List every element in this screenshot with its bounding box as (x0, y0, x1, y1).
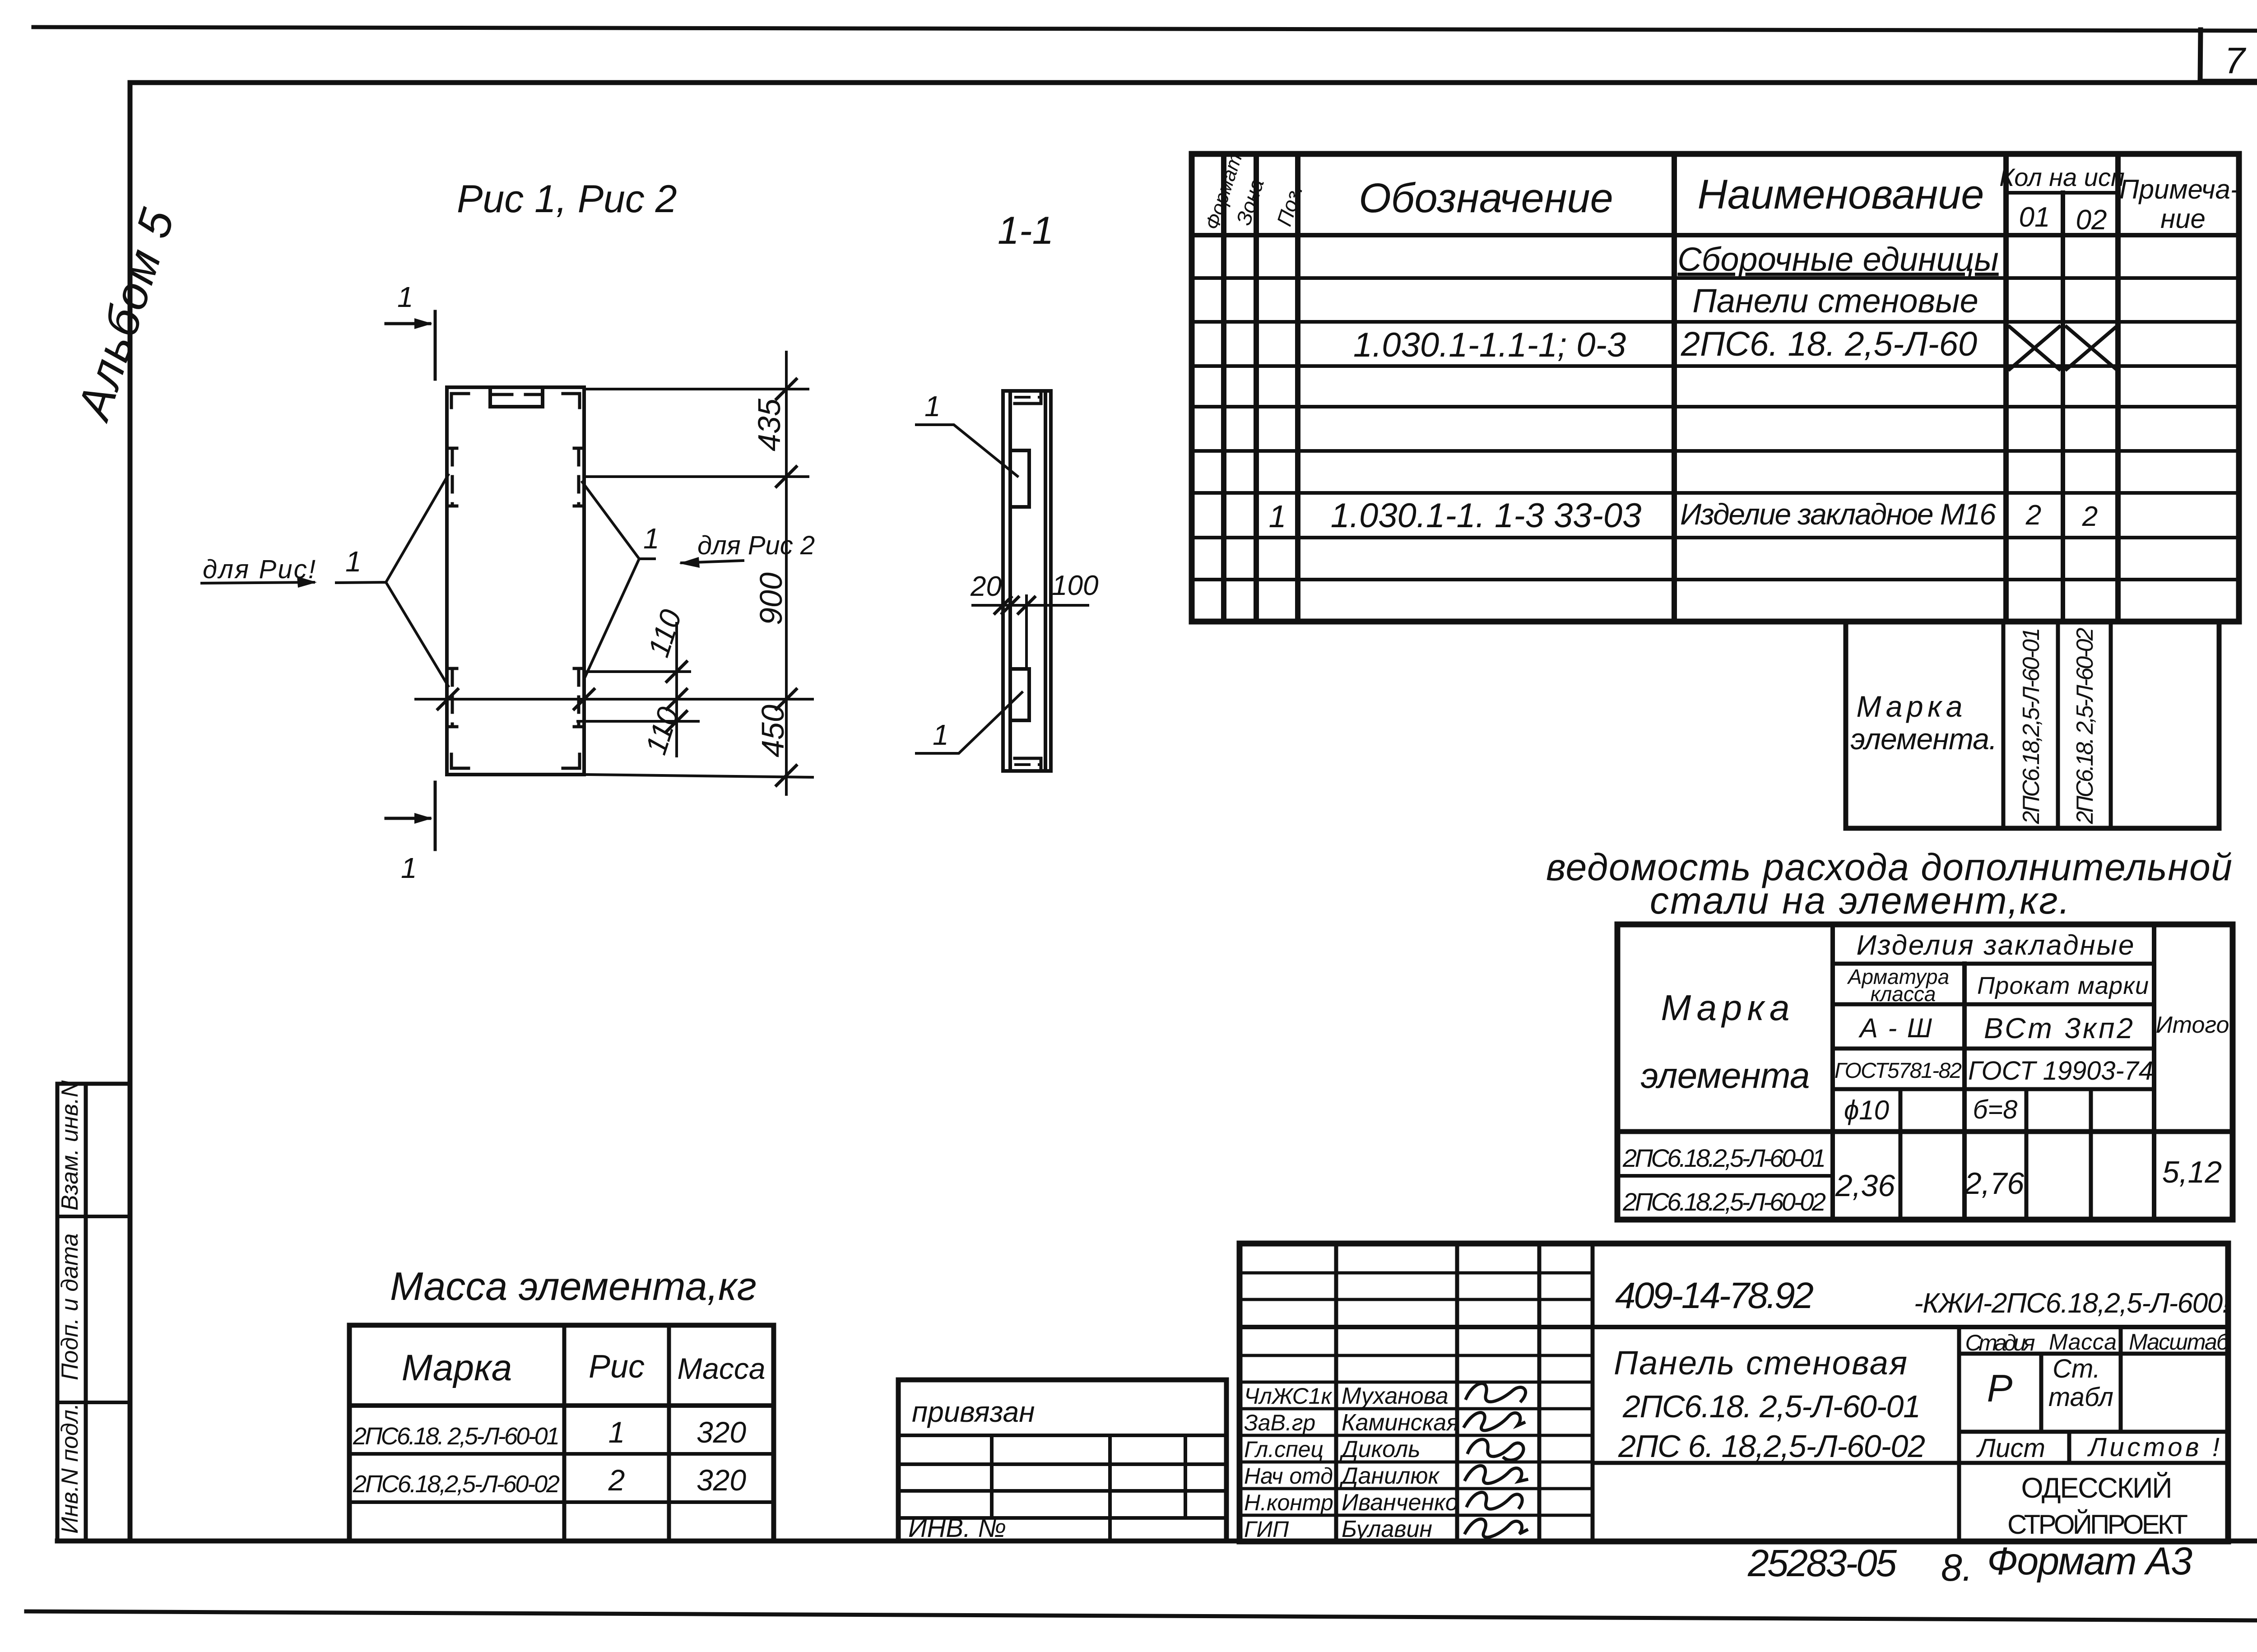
svg-text:2ПС6.18. 2,5-Л-60-02: 2ПС6.18. 2,5-Л-60-02 (2072, 627, 2098, 824)
svg-text:Р: Р (1987, 1367, 2013, 1410)
svg-text:Каминская: Каминская (1342, 1410, 1459, 1436)
svg-text:7: 7 (2224, 40, 2247, 81)
svg-text:2ПС6.18. 2,5-Л-60-01: 2ПС6.18. 2,5-Л-60-01 (1622, 1389, 1921, 1424)
svg-text:для Рис 2: для Рис 2 (697, 531, 815, 560)
svg-text:5,12: 5,12 (2162, 1155, 2222, 1189)
svg-text:25283-05: 25283-05 (1747, 1542, 1897, 1584)
svg-text:2ПС6. 18. 2,5-Л-60: 2ПС6. 18. 2,5-Л-60 (1681, 325, 1977, 363)
X mark 02 (2067, 327, 2116, 369)
specification table outer (1192, 154, 2239, 622)
svg-text:Кол на исп: Кол на исп (1999, 163, 2125, 191)
svg-text:2: 2 (2082, 501, 2098, 532)
svg-text:Наименование: Наименование (1698, 172, 1984, 218)
dim ticks (776, 379, 796, 399)
spec table header bottom (1192, 233, 2239, 237)
svg-text:Инв.N подл.: Инв.N подл. (57, 1403, 83, 1534)
svg-text:Муханова: Муханова (1342, 1383, 1449, 1409)
section cut mark top (386, 311, 435, 379)
svg-text:Формат А3: Формат А3 (1987, 1540, 2192, 1583)
svg-text:Иванченко: Иванченко (1342, 1490, 1458, 1516)
svg-text:Данилюк: Данилюк (1339, 1463, 1440, 1489)
svg-text:класса: класса (1871, 982, 1936, 1006)
svg-text:02: 02 (2076, 204, 2107, 236)
tick slashes at panel edge crossings (438, 689, 594, 709)
svg-text:2ПС6.18.2,5-Л-60-01: 2ПС6.18.2,5-Л-60-01 (1622, 1144, 1826, 1172)
massa table outer (349, 1325, 774, 1541)
svg-text:409-14-78.92: 409-14-78.92 (1615, 1275, 1814, 1316)
left leader lines (336, 475, 448, 686)
svg-text:привязан: привязан (912, 1396, 1035, 1428)
svg-text:Марка: Марка (402, 1347, 512, 1388)
dim extension lines (416, 389, 813, 777)
top edge line of sheet (33, 27, 2257, 31)
svg-text:1.030.1-1. 1-3 33-03: 1.030.1-1. 1-3 33-03 (1331, 497, 1642, 535)
inner dim 110 upper (587, 623, 690, 756)
svg-text:Подп. и дата: Подп. и дата (57, 1233, 83, 1380)
svg-text:Диколь: Диколь (1339, 1436, 1421, 1462)
svg-text:2ПС6.18. 2,5-Л-60-01: 2ПС6.18. 2,5-Л-60-01 (353, 1423, 560, 1450)
svg-text:450: 450 (755, 705, 790, 757)
svg-text:Взам. инв.N: Взам. инв.N (57, 1080, 83, 1211)
strip divider lines (57, 1216, 130, 1402)
steel table outer (1617, 924, 2233, 1220)
section leader lower 1 (916, 692, 1022, 753)
svg-text:элемента: элемента (1641, 1055, 1810, 1095)
svg-text:1: 1 (924, 390, 941, 422)
svg-text:1: 1 (397, 281, 413, 313)
svg-text:б=8: б=8 (1973, 1095, 2018, 1124)
svg-text:8.: 8. (1941, 1546, 1973, 1589)
title block name row lines (1240, 1382, 1593, 1515)
section lower embed item (1010, 669, 1029, 720)
title block upper-left row lines (1240, 1273, 1593, 1355)
svg-text:320: 320 (697, 1415, 746, 1449)
svg-text:ГОСТ 19903-74: ГОСТ 19903-74 (1968, 1056, 2153, 1086)
svg-text:Примеча-: Примеча- (2119, 174, 2239, 204)
marka elementa box (1846, 622, 2219, 828)
svg-text:Н.контр: Н.контр (1244, 1490, 1333, 1515)
svg-text:1-1: 1-1 (998, 209, 1054, 252)
corner bracket top-left (451, 394, 469, 408)
svg-text:табл: табл (2048, 1383, 2113, 1412)
signature squiggles (1466, 1383, 1526, 1402)
svg-text:Рис: Рис (589, 1349, 645, 1385)
svg-text:100: 100 (1052, 570, 1098, 601)
steel table horizontals (1833, 964, 2154, 1089)
svg-text:ГОСТ5781-82: ГОСТ5781-82 (1834, 1059, 1962, 1083)
svg-text:Стадия: Стадия (1965, 1330, 2035, 1355)
privyazan box (898, 1380, 1226, 1541)
svg-text:Гл.спец: Гл.спец (1244, 1437, 1324, 1462)
svg-text:320: 320 (697, 1463, 746, 1497)
svg-text:2,36: 2,36 (1835, 1169, 1895, 1203)
X mark 01 (2010, 327, 2059, 369)
svg-text:Изделие закладное М16: Изделие закладное М16 (1680, 497, 1996, 531)
corner bracket top-right (563, 394, 580, 408)
section bottom notch (1015, 758, 1041, 771)
svg-text:2: 2 (2025, 500, 2041, 531)
svg-text:ние: ние (2160, 204, 2206, 234)
svg-text:01: 01 (2019, 202, 2050, 233)
corner bracket bottom-left (451, 754, 469, 768)
section cut mark bottom (386, 782, 435, 849)
corner bracket bottom-right (563, 754, 580, 768)
svg-text:2,76: 2,76 (1964, 1166, 2025, 1201)
svg-text:Обозначение: Обозначение (1359, 175, 1613, 221)
svg-text:Масса: Масса (677, 1352, 765, 1385)
section dims 20 100 (973, 596, 1088, 669)
svg-text:ЗаВ.гр: ЗаВ.гр (1244, 1410, 1315, 1435)
svg-text:ИНВ. №: ИНВ. № (908, 1513, 1006, 1543)
strong line under 409 row (1240, 1325, 2228, 1329)
svg-text:А-Ш: А-Ш (1858, 1013, 1932, 1043)
section leader upper 1 (916, 425, 1017, 476)
page number box (2200, 30, 2257, 81)
section panel walls (1003, 391, 1051, 771)
svg-text:1: 1 (401, 852, 417, 884)
svg-text:2ПС6.18.2,5-Л-60-02: 2ПС6.18.2,5-Л-60-02 (1622, 1188, 1826, 1216)
svg-text:900: 900 (753, 572, 789, 625)
svg-text:Марка: Марка (1857, 690, 1963, 723)
svg-text:элемента.: элемента. (1851, 722, 1997, 756)
svg-text:ϕ10: ϕ10 (1844, 1095, 1889, 1125)
svg-text:1: 1 (608, 1415, 625, 1449)
svg-text:1.030.1-1.1-1; 0-3: 1.030.1-1.1-1; 0-3 (1353, 326, 1626, 364)
steel table verticals (1833, 924, 2154, 1220)
title block left verticals (1336, 1244, 1593, 1541)
svg-text:435: 435 (752, 398, 787, 451)
left margin strip box (57, 1084, 130, 1541)
svg-text:20: 20 (970, 571, 1002, 602)
spec table row lines (1192, 276, 2239, 280)
svg-text:Панели стеновые: Панели стеновые (1692, 282, 1978, 320)
svg-text:1: 1 (345, 545, 362, 578)
lower embed mark right (574, 668, 583, 727)
svg-text:Изделия закладные: Изделия закладные (1857, 930, 2134, 961)
spec table header underline kol na isp (2006, 191, 2118, 195)
top lifting notch (490, 388, 543, 407)
svg-text:Прокат марки: Прокат марки (1977, 972, 2149, 999)
svg-text:Сборочные единицы: Сборочные единицы (1677, 241, 1998, 278)
svg-text:Марка: Марка (1661, 988, 1790, 1028)
sheet bottom line (26, 1611, 2257, 1620)
inner dim 110 lower (578, 720, 698, 723)
svg-text:1: 1 (933, 719, 949, 751)
main vertical dimension line (785, 352, 788, 794)
svg-text:Лист: Лист (1976, 1434, 2045, 1463)
svg-text:Масса элемента,кг: Масса элемента,кг (390, 1264, 757, 1309)
upper embed mark left (448, 448, 457, 506)
svg-text:ВСт 3кп2: ВСт 3кп2 (1984, 1012, 2133, 1044)
section upper embed item (1010, 450, 1029, 507)
svg-text:Нач отд: Нач отд (1244, 1463, 1333, 1489)
svg-text:1: 1 (1269, 499, 1286, 534)
right section lines (1959, 1327, 2121, 1541)
svg-text:ГИП: ГИП (1244, 1517, 1289, 1542)
svg-text:2ПС6.18,2,5-Л-60-02: 2ПС6.18,2,5-Л-60-02 (353, 1471, 560, 1498)
svg-text:Булавин: Булавин (1342, 1516, 1432, 1542)
svg-text:Ст.: Ст. (2053, 1354, 2100, 1383)
svg-text:2ПС6.18,2,5-Л-60-01: 2ПС6.18,2,5-Л-60-01 (2018, 628, 2044, 825)
svg-text:Масса: Масса (2049, 1329, 2117, 1355)
svg-text:2: 2 (608, 1463, 625, 1497)
svg-text:Масштаб: Масштаб (2129, 1329, 2230, 1355)
svg-text:ОДЕССКИЙ: ОДЕССКИЙ (2021, 1472, 2173, 1504)
svg-text:ЧлЖС1к: ЧлЖС1к (1244, 1383, 1333, 1409)
right leader lines (582, 482, 655, 677)
upper embed mark right (574, 448, 583, 506)
svg-text:-КЖИ-2ПС6.18,2,5-Л-600!: -КЖИ-2ПС6.18,2,5-Л-600! (1914, 1288, 2230, 1319)
svg-text:2ПС 6. 18,2,5-Л-60-02: 2ПС 6. 18,2,5-Л-60-02 (1618, 1429, 1925, 1464)
spec table column lines (1224, 154, 2118, 622)
svg-text:Рис 1, Рис 2: Рис 1, Рис 2 (457, 177, 677, 221)
lower embed mark left (448, 668, 457, 727)
svg-text:Итого: Итого (2156, 1012, 2229, 1038)
panel outline (447, 387, 584, 775)
svg-text:СТРОЙПРОЕКТ: СТРОЙПРОЕКТ (2007, 1509, 2188, 1540)
svg-text:1: 1 (643, 522, 659, 555)
title block outer (1240, 1244, 2228, 1541)
section top notch (1015, 391, 1041, 404)
